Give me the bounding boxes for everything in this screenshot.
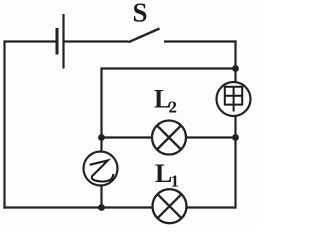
switch S [129, 29, 160, 43]
svg-text:S: S [133, 0, 148, 28]
label S [133, 0, 148, 28]
wire inner left vertical [100, 67, 102, 207]
meter 甲 U1 [217, 82, 251, 116]
wire middle horizontal through L2 [102, 136, 236, 138]
wire right vertical [234, 40, 236, 208]
lamp L2 [152, 121, 186, 155]
junction node C right middle [232, 134, 239, 141]
battery B1 [57, 14, 64, 69]
wire bottom horizontal [3, 206, 235, 208]
meter 乙 U2 [84, 152, 118, 186]
svg-text:2: 2 [169, 98, 178, 117]
label L1 [155, 159, 179, 191]
junction node D bottom left [98, 204, 105, 211]
svg-text:1: 1 [171, 172, 180, 191]
wire battery to switch [64, 40, 129, 42]
junction node A top right [232, 65, 239, 72]
label L2 [154, 85, 177, 117]
wire inner top horizontal [102, 67, 236, 69]
wire left vertical [3, 40, 5, 208]
wire top-left from battery to left corner [5, 40, 57, 42]
junction node B left middle [98, 134, 105, 141]
lamp L1 [153, 189, 187, 223]
wire switch to top-right corner [164, 40, 237, 42]
